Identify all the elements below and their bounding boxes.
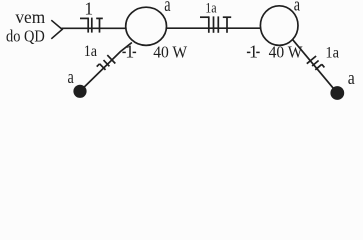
wire W1 from feeder to lamp L1 bbox=[62, 27, 127, 29]
hyphens of -1- (lamp L1) bbox=[122, 51, 125, 53]
S1 conductor tick 3 long bbox=[107, 55, 115, 63]
svg-text:vem: vem bbox=[15, 7, 45, 27]
conductor marks W2: neutral tick bbox=[208, 16, 210, 32]
switch S2 dot bbox=[330, 86, 344, 100]
svg-text:a: a bbox=[294, 0, 301, 16]
S2 conductor tick 3 (neutral, with bar) bbox=[315, 64, 322, 70]
conductor marks W2: neutral bar bbox=[200, 16, 209, 18]
conductor marks circuit 1: ground T stem bbox=[99, 18, 101, 32]
S1 conductor tick 1 (neutral, with bar) bbox=[100, 64, 106, 70]
svg-text:1a: 1a bbox=[84, 43, 98, 60]
conductor marks W2: phase tick bbox=[213, 16, 215, 32]
wire W2 between lamps bbox=[166, 27, 260, 29]
conductor marks circuit 1: neutral tick bbox=[87, 18, 89, 33]
feeder arrow (vem do QD) bbox=[51, 20, 62, 39]
svg-text:40 W: 40 W bbox=[269, 43, 303, 62]
conductor marks W2: ground T stem bbox=[226, 17, 228, 33]
svg-text:40 W: 40 W bbox=[153, 43, 187, 62]
conductor marks circuit 1: neutral bar bbox=[80, 17, 88, 19]
conductor marks circuit 1: phase tick bbox=[91, 18, 93, 33]
svg-text:a: a bbox=[68, 67, 75, 88]
svg-text:1: 1 bbox=[125, 42, 134, 62]
svg-text:1: 1 bbox=[84, 0, 93, 19]
S1 conductor tick 2 bbox=[104, 60, 110, 66]
svg-text:1a: 1a bbox=[325, 45, 339, 62]
switch leg S1 wire bbox=[80, 43, 132, 91]
hyphens of -1- (lamp L2) bbox=[247, 51, 251, 53]
S1 conductor tick 1 bar bbox=[97, 64, 100, 67]
S2 conductor tick 2 bbox=[312, 61, 319, 67]
lamp L2 bbox=[260, 6, 298, 46]
lamp L1 bbox=[126, 7, 167, 45]
svg-text:1: 1 bbox=[249, 42, 258, 62]
conductor marks circuit 1: ground T bar bbox=[96, 17, 103, 19]
svg-text:a: a bbox=[348, 68, 355, 89]
S2 conductor tick 3 bar bbox=[322, 64, 325, 67]
svg-text:a: a bbox=[164, 0, 170, 16]
switch leg S2 wire bbox=[293, 40, 337, 93]
conductor marks W2: ground T bar bbox=[223, 16, 231, 18]
conductor marks W2: return tick bbox=[217, 16, 219, 32]
S2 conductor tick long bbox=[307, 56, 316, 64]
svg-text:do QD: do QD bbox=[6, 26, 45, 45]
switch S1 dot bbox=[73, 85, 86, 98]
svg-text:1a: 1a bbox=[205, 1, 217, 17]
